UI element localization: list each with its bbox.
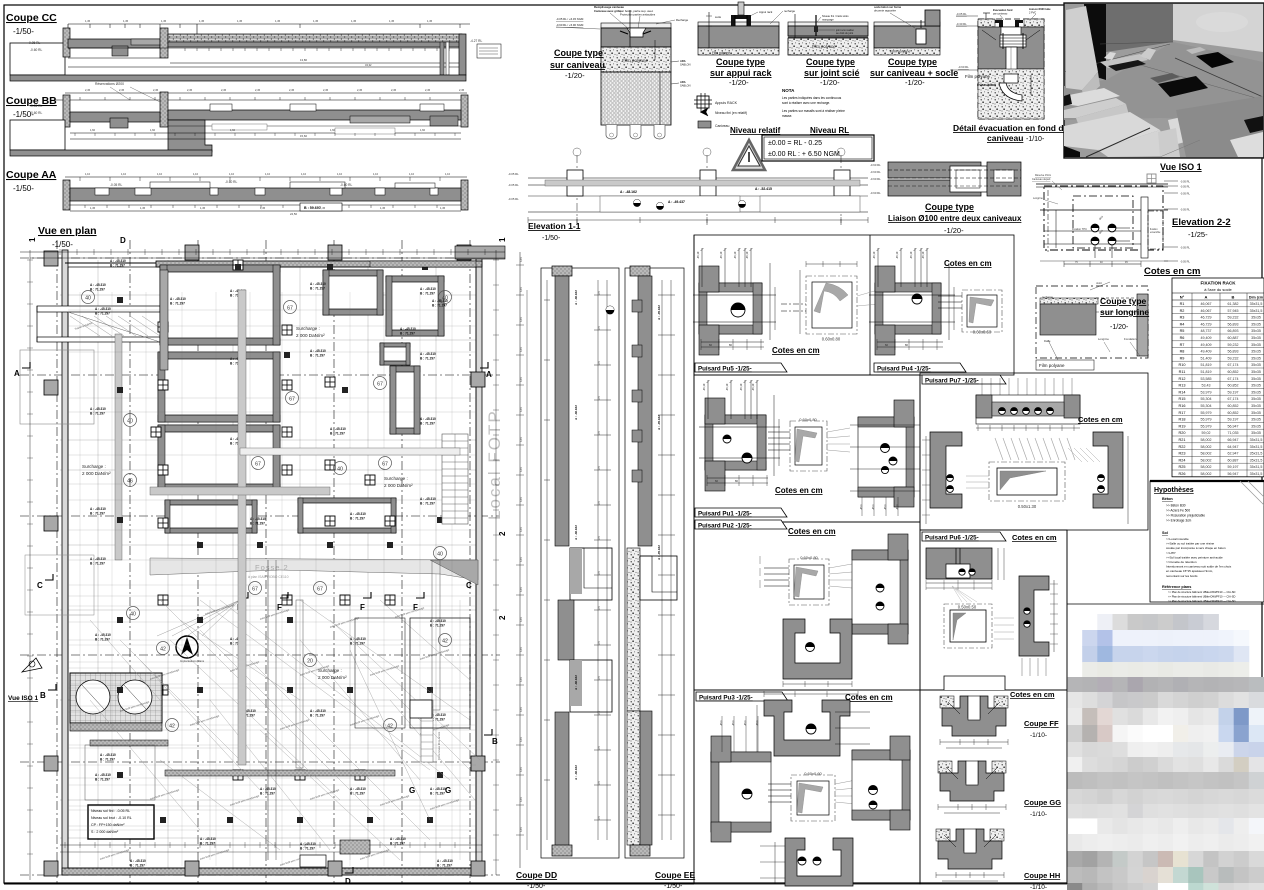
- svg-text:B : 71.297: B : 71.297: [300, 847, 315, 851]
- Coupe DD black dot: [606, 306, 614, 314]
- liaison drawing left block: [888, 162, 981, 178]
- joint scie left dim: [794, 14, 796, 38]
- svg-text:B : 71.297: B : 71.297: [95, 778, 110, 782]
- svg-text:13,80: 13,80: [300, 58, 307, 62]
- Coupe BB mid pier: [160, 92, 168, 127]
- svg-text:66,947: 66,947: [1228, 438, 1239, 442]
- Coupe EE strip outline: [625, 268, 684, 858]
- svg-text:75: 75: [1075, 261, 1078, 264]
- svg-text:80: 80: [729, 343, 732, 347]
- svg-text:59,02: 59,02: [1202, 431, 1211, 435]
- svg-text:58,002: 58,002: [1201, 472, 1212, 476]
- plan bottom hatched band: [165, 770, 395, 776]
- svg-text:-0.05 RL: -0.05 RL: [508, 183, 519, 187]
- svg-text:Coupe DD: Coupe DD: [516, 870, 557, 880]
- svg-text:3,45: 3,45: [520, 377, 523, 382]
- 3d mid small blocks row: [1100, 54, 1148, 68]
- svg-text:58,002: 58,002: [1201, 458, 1212, 462]
- puisard Pu7 left section: [930, 432, 962, 508]
- svg-text:Joint Sciff avec remplissage: Joint Sciff avec remplissage: [149, 788, 180, 801]
- svg-text:A : -45.310: A : -45.310: [420, 417, 436, 421]
- svg-text:60,852: 60,852: [1228, 411, 1239, 415]
- svg-text:A: A: [1205, 295, 1208, 300]
- svg-text:-45,19: -45,19: [702, 383, 706, 391]
- Coupe CC bottom slab band: [10, 75, 466, 81]
- svg-text:1,45: 1,45: [237, 19, 243, 23]
- Coupe BB dim row: [79, 97, 81, 100]
- svg-text:B : 71.297: B : 71.297: [90, 512, 105, 516]
- pit right tiny: [380, 343, 410, 365]
- svg-text:Coupe EE: Coupe EE: [655, 870, 695, 880]
- elevation 2-2 left dash verticals: [1047, 190, 1049, 252]
- svg-text:-45,1: -45,1: [896, 504, 899, 510]
- svg-text:35x31,5: 35x31,5: [1250, 458, 1263, 462]
- svg-text:1,45: 1,45: [427, 19, 433, 23]
- svg-text:1,45: 1,45: [351, 19, 357, 23]
- svg-text:Niveau sol fini : -0.05 RL: Niveau sol fini : -0.05 RL: [91, 809, 130, 813]
- svg-text:Puisard Pu6 -1/25-: Puisard Pu6 -1/25-: [925, 535, 979, 542]
- 3d pillar: [1066, 6, 1098, 90]
- svg-text:-1/25-: -1/25-: [1188, 230, 1208, 239]
- svg-text:R17: R17: [1179, 411, 1186, 415]
- svg-text:D: D: [120, 236, 126, 245]
- detail evacuation top speckle strips: [978, 19, 995, 27]
- svg-text:A : -45.310: A : -45.310: [350, 512, 366, 516]
- svg-text:Joint Sciff avec remplissage: Joint Sciff avec remplissage: [229, 794, 260, 807]
- svg-text:35x35: 35x35: [1251, 350, 1261, 354]
- svg-text:A : -45.310: A : -45.310: [90, 507, 106, 511]
- svg-text:1,45: 1,45: [320, 206, 326, 210]
- svg-text:-0.05 RL: -0.05 RL: [508, 197, 519, 201]
- svg-text:59,197: 59,197: [1228, 465, 1239, 469]
- svg-text:0.60x0.60: 0.60x0.60: [973, 330, 992, 335]
- svg-text:-1/10-: -1/10-: [1030, 811, 1047, 818]
- puisard Pu7 hatch rays: [995, 438, 1003, 460]
- svg-text:1,10: 1,10: [229, 172, 235, 176]
- label Puisard Pu5 -1/25-: [695, 363, 787, 372]
- Coupe BB left slab notch: [110, 118, 128, 128]
- Coupe CC section drawing: [68, 23, 470, 25]
- svg-text:B : 71.297: B : 71.297: [420, 422, 435, 426]
- svg-text:3.5: 3.5: [597, 676, 601, 680]
- svg-text:Surcharge :: Surcharge :: [384, 476, 408, 481]
- svg-text:55,304: 55,304: [1201, 397, 1212, 401]
- svg-text:R9: R9: [1180, 356, 1185, 360]
- svg-text:R13: R13: [1179, 384, 1186, 388]
- coupe type sur appui rack drawing: [698, 22, 779, 26]
- Coupe BB section drawing top line: [65, 92, 467, 94]
- svg-text:Film polyane: Film polyane: [622, 58, 648, 63]
- svg-text:35x35: 35x35: [1251, 424, 1261, 428]
- plan staircase right: [442, 434, 468, 524]
- svg-text:A : -45.310: A : -45.310: [420, 352, 436, 356]
- svg-text:1,10: 1,10: [265, 172, 271, 176]
- svg-text:R14: R14: [1179, 390, 1186, 394]
- svg-text:A : -45.162: A : -45.162: [657, 305, 661, 320]
- detail evacuation speckle bed: [978, 69, 1044, 119]
- svg-text:à plan ISAB FIOBO CE110: à plan ISAB FIOBO CE110: [248, 575, 289, 579]
- longrine box dash border: [1036, 286, 1148, 358]
- svg-text:R5: R5: [1180, 329, 1185, 333]
- elevation 1-1 long lines: [528, 177, 868, 179]
- plan left dimension column: [29, 250, 31, 880]
- svg-text:A : -45.310: A : -45.310: [330, 427, 346, 431]
- svg-text:R20: R20: [1179, 431, 1186, 435]
- 3d pillar base slab: [1064, 88, 1120, 106]
- legend appuis rack symbol: [697, 96, 709, 108]
- svg-text:-45,19: -45,19: [921, 251, 925, 259]
- longrine top leader: [1090, 282, 1110, 290]
- niveau equivalence box: [762, 135, 874, 161]
- svg-text:A : -52.415: A : -52.415: [755, 187, 772, 191]
- svg-text:67: 67: [287, 305, 293, 311]
- svg-text:45: 45: [1125, 261, 1128, 264]
- svg-text:-45,1: -45,1: [872, 504, 875, 510]
- svg-text:Joint Sciff avec remplissage: Joint Sciff avec remplissage: [279, 718, 310, 731]
- svg-text:3,45: 3,45: [520, 647, 523, 652]
- plan lower vertical strips: [296, 600, 303, 768]
- 3d upper mid dark wall: [1106, 4, 1173, 52]
- Coupe EE lower speckle: [627, 711, 640, 845]
- detail evacuation channel white: [1001, 27, 1021, 35]
- svg-text:35x35: 35x35: [1251, 370, 1261, 374]
- Coupe AA top dim line: [65, 176, 467, 178]
- svg-text:-0.05 RL: -0.05 RL: [1180, 260, 1191, 264]
- svg-text:B : 71.297: B : 71.297: [130, 864, 145, 868]
- plan lower diagonal joint lines: [200, 600, 430, 770]
- pit fosse mid-left: [158, 352, 280, 422]
- Coupe CC slab under brick: [168, 42, 462, 47]
- svg-text:60,852: 60,852: [1228, 404, 1239, 408]
- svg-text:1,60: 1,60: [330, 128, 336, 132]
- detail evacuation drawing box: [978, 19, 1044, 119]
- svg-text:Hypothèses: Hypothèses: [1154, 487, 1194, 494]
- svg-text:R10: R10: [1179, 363, 1186, 367]
- svg-text:58,002: 58,002: [1201, 452, 1212, 456]
- svg-text:0.60x0.80: 0.60x0.80: [800, 555, 818, 560]
- Coupe CC right pier: [440, 42, 444, 75]
- Coupe EE wall band lower: [640, 711, 652, 845]
- svg-text:sur joint scié: sur joint scié: [804, 68, 860, 78]
- hypotheses block: [1150, 481, 1264, 602]
- caniveau notch slot: [627, 28, 646, 37]
- svg-text:R19: R19: [1179, 424, 1186, 428]
- svg-text:67: 67: [317, 586, 323, 592]
- svg-text:58,002: 58,002: [1201, 465, 1212, 469]
- svg-text:A : -45.310: A : -45.310: [310, 709, 326, 713]
- svg-text:35x35: 35x35: [1251, 329, 1261, 333]
- socle notch slot: [916, 29, 926, 44]
- svg-text:3,45: 3,45: [520, 497, 523, 502]
- pit small bottom-right: [298, 498, 396, 533]
- svg-text:Caniveau: Caniveau: [715, 124, 729, 128]
- svg-text:Liaison Ø100 entre deux canive: Liaison Ø100 entre deux caniveaux: [888, 214, 1022, 223]
- svg-text:46,729: 46,729: [1201, 322, 1212, 326]
- svg-text:B : 71.297: B : 71.297: [200, 842, 215, 846]
- svg-text:Film polyane: Film polyane: [890, 50, 910, 54]
- svg-text:2 000 DaN/m²: 2 000 DaN/m²: [296, 333, 325, 338]
- hypotheses corner diagonals: [1240, 481, 1264, 505]
- svg-text:>>Local incendie: >>Local incendie: [1166, 537, 1189, 541]
- plan outer wall right: [476, 250, 482, 875]
- svg-text:35x35: 35x35: [1251, 418, 1261, 422]
- svg-text:35x35: 35x35: [1251, 377, 1261, 381]
- svg-text:B : 71.297: B : 71.297: [250, 522, 265, 526]
- svg-text:Joint Sciff avec remplissage: Joint Sciff avec remplissage: [199, 848, 230, 861]
- liaison dashed levels: [888, 169, 1021, 171]
- svg-text:1,45: 1,45: [140, 206, 146, 210]
- svg-text:49,409: 49,409: [1201, 336, 1212, 340]
- svg-text:Fondation: Fondation: [1124, 337, 1137, 341]
- svg-text:SABLON: SABLON: [680, 63, 691, 67]
- svg-text:1,60: 1,60: [420, 128, 426, 132]
- svg-text:>> Plan de structure bâtiment: >> Plan de structure bâtiment UBike-DWI/…: [1168, 590, 1235, 594]
- svg-text:en caniveau 15*15 épaisseur 9m: en caniveau 15*15 épaisseur 9mm,: [1166, 569, 1213, 573]
- plan section marker flags: [22, 362, 30, 368]
- 3d iso render background: [1064, 3, 1264, 158]
- svg-text:-1/10-: -1/10-: [1026, 136, 1045, 143]
- svg-text:67: 67: [255, 461, 261, 467]
- svg-text:-45,1: -45,1: [756, 720, 759, 726]
- svg-text:A : -45.310: A : -45.310: [90, 557, 106, 561]
- plan small black squares: [235, 264, 241, 270]
- svg-text:59,197: 59,197: [1228, 418, 1239, 422]
- Coupe CC tick marks: [184, 48, 186, 51]
- svg-text:-45,19: -45,19: [696, 251, 700, 259]
- svg-text:55,979: 55,979: [1201, 424, 1212, 428]
- plan outer wall left: [62, 250, 68, 875]
- svg-text:3.5: 3.5: [597, 641, 601, 645]
- svg-text:-0.60 RL: -0.60 RL: [870, 191, 881, 195]
- svg-text:-45,19: -45,19: [745, 251, 749, 259]
- svg-text:B : 71.297: B : 71.297: [310, 714, 325, 718]
- svg-text:ARA: ARA: [680, 59, 686, 63]
- puisard grid outer boxes: [694, 235, 1014, 375]
- svg-text:60,852: 60,852: [1228, 370, 1239, 374]
- ascenseur circle 2: [118, 680, 152, 714]
- svg-text:1,45: 1,45: [200, 206, 206, 210]
- svg-text:Réserve 15cm: Réserve 15cm: [1035, 174, 1051, 177]
- Coupe EE mid white box: [640, 556, 677, 600]
- 3d floor seam lines: [1100, 42, 1173, 44]
- svg-text:3,45: 3,45: [520, 527, 523, 532]
- svg-text:Dalle: Dalle: [1044, 339, 1051, 343]
- svg-text:Intentionnant en caniveau soit: Intentionnant en caniveau soit solde de …: [1166, 565, 1232, 569]
- svg-text:51,409: 51,409: [1201, 356, 1212, 360]
- svg-text:B : 71.297: B : 71.297: [310, 287, 325, 291]
- svg-text:61,382: 61,382: [1228, 302, 1239, 306]
- svg-text:3.5: 3.5: [597, 816, 601, 820]
- svg-text:Cotes en cm: Cotes en cm: [1144, 266, 1201, 277]
- svg-text:-0.60 RL: -0.60 RL: [340, 183, 352, 187]
- svg-text:Joint Sciff avec remplissage: Joint Sciff avec remplissage: [259, 608, 290, 621]
- Coupe BB long lines: [70, 132, 461, 134]
- plan corner columns: [44, 251, 58, 266]
- plan horizontal duct band: [150, 487, 330, 495]
- svg-text:42: 42: [442, 638, 448, 644]
- svg-text:Dim (cm: Dim (cm: [1249, 296, 1263, 300]
- plan lower extra h-lines: [68, 584, 476, 586]
- svg-text:Les parties sur massifs sont à: Les parties sur massifs sont à réaliser …: [782, 109, 845, 113]
- plan-strip gap dimension ladder: [519, 252, 521, 868]
- svg-text:3.5: 3.5: [597, 606, 601, 610]
- puisard Pu3 top T dim lines: [756, 705, 758, 760]
- svg-text:58,002: 58,002: [1201, 445, 1212, 449]
- svg-text:±0.00 = RL - 0.25: ±0.00 = RL - 0.25: [768, 140, 822, 147]
- Coupe BB step down left: [168, 120, 212, 152]
- svg-text:A : -45.310: A : -45.310: [100, 753, 116, 757]
- Coupe CC right end wall: [459, 34, 466, 75]
- svg-text:A : -45.310: A : -45.310: [420, 287, 436, 291]
- puisard Pu1 right dim lines: [850, 424, 920, 426]
- svg-text:Cotes en cm: Cotes en cm: [944, 259, 992, 268]
- detail evacuation film polyane box: [1004, 74, 1018, 83]
- svg-text:A : -45.310: A : -45.310: [310, 282, 326, 286]
- svg-text:Elevation 1-1: Elevation 1-1: [528, 221, 581, 231]
- svg-text:-0.60 RL: -0.60 RL: [870, 163, 881, 167]
- svg-text:0.50x1.30: 0.50x1.30: [1018, 504, 1037, 509]
- svg-text:35x31,5: 35x31,5: [1250, 465, 1263, 469]
- svg-text:46,729: 46,729: [1201, 316, 1212, 320]
- svg-text:A : -45.310: A : -45.310: [400, 327, 416, 331]
- svg-text:35x35: 35x35: [1251, 411, 1261, 415]
- svg-text:>>Sol local traitée avec peint: >>Sol local traitée avec peinture anti-a…: [1166, 555, 1223, 559]
- svg-text:35x31,5: 35x31,5: [1250, 472, 1263, 476]
- puisard Pu7 right section: [1093, 432, 1123, 508]
- 3d diagonal seam bottom: [1086, 128, 1150, 157]
- svg-text:Niveau sol brut : -0.10 RL: Niveau sol brut : -0.10 RL: [91, 816, 132, 820]
- pit far-right top: [386, 276, 444, 336]
- fosse 2 band: [150, 558, 478, 580]
- elevation 2-2 pipe leader lines: [1116, 227, 1130, 229]
- puisard Pu3 left C bracket: [711, 752, 771, 832]
- svg-text:34,32: 34,32: [365, 63, 372, 67]
- svg-text:-45,19: -45,19: [909, 251, 913, 259]
- puisard Pu3 plan leaders: [768, 783, 791, 785]
- socle raised block: [925, 10, 940, 26]
- plan top-left pit walls partial: [160, 270, 168, 370]
- puisard Pu7 leader lines: [966, 475, 989, 477]
- svg-text:A : -46.162: A : -46.162: [574, 290, 578, 305]
- plan top dimension row: [20, 251, 505, 253]
- plan mid vertical dim ladders: [209, 600, 211, 860]
- svg-text:3,45: 3,45: [520, 347, 523, 352]
- svg-text:Film polyane: Film polyane: [1039, 363, 1065, 368]
- svg-text:A : -49.437: A : -49.437: [668, 200, 685, 204]
- svg-text:Vue ISO 1: Vue ISO 1: [1160, 162, 1202, 172]
- svg-text:1,10: 1,10: [121, 172, 127, 176]
- svg-text:3.5: 3.5: [597, 746, 601, 750]
- pit right narrow: [390, 366, 420, 434]
- svg-text:A : -45.162: A : -45.162: [657, 545, 661, 560]
- elevation 1-1 lower recess boxes: [600, 196, 740, 212]
- svg-text:2 000 DaN/m²: 2 000 DaN/m²: [318, 675, 347, 680]
- svg-text:Recharge: Recharge: [676, 18, 689, 22]
- svg-text:S : 2 000 daN/m²: S : 2 000 daN/m²: [91, 830, 119, 834]
- svg-text:Coupe GG: Coupe GG: [1024, 798, 1061, 807]
- coupe GG drawing: [938, 761, 952, 773]
- svg-text:3,45: 3,45: [520, 617, 523, 622]
- svg-text:Caniveau depart: Caniveau depart: [1032, 178, 1051, 181]
- svg-text:1,45: 1,45: [440, 206, 446, 210]
- Coupe DD left dim line: [546, 280, 548, 840]
- svg-text:R1: R1: [1180, 302, 1185, 306]
- label Puisard Pu7 -1/25-: [922, 375, 1006, 384]
- svg-text:-0.60 RL: -0.60 RL: [870, 177, 881, 181]
- svg-text:sur appui rack: sur appui rack: [710, 68, 773, 78]
- svg-text:-45,19: -45,19: [733, 251, 737, 259]
- svg-text:1,10: 1,10: [193, 172, 199, 176]
- svg-text:B : 71.297: B : 71.297: [420, 292, 435, 296]
- svg-text:3,45: 3,45: [520, 707, 523, 712]
- svg-text:1,45: 1,45: [161, 19, 167, 23]
- svg-text:80: 80: [905, 343, 908, 347]
- svg-text:Référence plans: Référence plans: [1162, 585, 1191, 589]
- Coupe CC right leader note: [477, 44, 501, 58]
- svg-text:B : 71.297: B : 71.297: [90, 288, 105, 292]
- Coupe CC slab notch: [112, 46, 128, 56]
- svg-text:35x35: 35x35: [1251, 363, 1261, 367]
- svg-text:2: 2: [498, 531, 507, 536]
- caniveau dashed band: [601, 72, 671, 125]
- svg-text:Film polyane: Film polyane: [965, 74, 990, 79]
- Coupe DD wall jog: [558, 600, 574, 660]
- detail evacuation pipe coupling: [1000, 35, 1026, 47]
- svg-text:67: 67: [289, 396, 295, 402]
- svg-text:1,60: 1,60: [150, 128, 156, 132]
- svg-text:-0.60 RL / +5.90 NGM: -0.60 RL / +5.90 NGM: [556, 23, 584, 27]
- svg-text:59,232: 59,232: [1228, 343, 1239, 347]
- label Puisard Pu3 -1/25-: [696, 692, 788, 701]
- svg-text:A : -45.310: A : -45.310: [310, 349, 326, 353]
- svg-text:Coupe type: Coupe type: [806, 57, 855, 67]
- svg-text:0.50x0.50: 0.50x0.50: [958, 605, 977, 610]
- svg-text:2,45: 2,45: [357, 88, 363, 92]
- plan left appendage bands: [37, 306, 160, 312]
- svg-text:A : -46.162: A : -46.162: [574, 525, 578, 540]
- svg-text:Niveau RL: Niveau RL: [810, 126, 849, 135]
- Coupe DD wall band upper: [555, 276, 569, 546]
- svg-text:66,893: 66,893: [1228, 329, 1239, 333]
- svg-text:1,45: 1,45: [260, 206, 266, 210]
- svg-text:35x31,5: 35x31,5: [1250, 309, 1263, 313]
- svg-text:>> Fissuration préjudiciable: >> Fissuration préjudiciable: [1166, 514, 1205, 518]
- puisard Pu1 right section mirrored: [858, 417, 914, 497]
- plan left outside box: [20, 350, 94, 424]
- svg-text:35x35: 35x35: [1251, 384, 1261, 388]
- svg-text:1,45: 1,45: [123, 19, 129, 23]
- svg-text:B : 71.297: B : 71.297: [90, 562, 105, 566]
- svg-text:-0.05 RL: -0.05 RL: [956, 12, 967, 16]
- svg-text:-45,19: -45,19: [751, 383, 755, 391]
- Coupe AA right pier: [461, 180, 468, 210]
- svg-text:-45,19: -45,19: [719, 251, 723, 259]
- svg-text:40: 40: [130, 611, 136, 617]
- puisard Pu3 plan view: [791, 775, 835, 821]
- svg-text:62,947: 62,947: [1228, 452, 1239, 456]
- svg-text:53,979: 53,979: [1201, 390, 1212, 394]
- svg-text:R25: R25: [1179, 465, 1186, 469]
- puisard Pu5 plan leader dashdot: [781, 303, 806, 305]
- puisard Pu5 plan view: [806, 276, 857, 334]
- svg-text:>>HTP: >>HTP: [1166, 551, 1176, 555]
- svg-text:Sol: Sol: [1162, 531, 1168, 535]
- title block region border: [1067, 603, 1264, 605]
- svg-text:Joint Sciff avec remplissage: Joint Sciff avec remplissage: [99, 848, 130, 861]
- svg-text:A : -45.310: A : -45.310: [90, 283, 106, 287]
- plan ascenseur pit box: [70, 673, 162, 723]
- elevation 2-2 right level labels: [1164, 180, 1178, 182]
